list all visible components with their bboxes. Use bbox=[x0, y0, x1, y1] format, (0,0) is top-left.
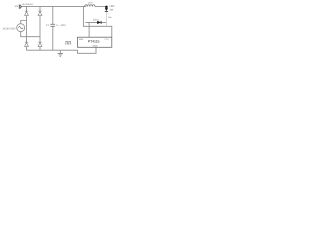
svg-text:85-265VAC: 85-265VAC bbox=[22, 3, 34, 6]
svg-text:GND: GND bbox=[93, 45, 98, 48]
diode D5 freewheel bbox=[97, 21, 101, 24]
svg-text:DIM: DIM bbox=[79, 38, 83, 41]
wire SW link bbox=[88, 22, 90, 37]
svg-text:SS14: SS14 bbox=[93, 19, 100, 22]
diode D2 (bridge top-right) bbox=[38, 7, 42, 16]
wire leg1 mid bbox=[26, 16, 28, 43]
svg-text:AC85-265V: AC85-265V bbox=[3, 28, 16, 31]
diode D3 (bridge bottom-left) bbox=[25, 42, 29, 50]
wire AC top to leg1 bbox=[21, 21, 27, 24]
svg-text:PT4115: PT4115 bbox=[88, 40, 99, 44]
svg-text:Vin: Vin bbox=[15, 5, 19, 8]
wire C1 branch lower bbox=[52, 26, 54, 50]
svg-text:CSN: CSN bbox=[104, 38, 109, 41]
wire LED cathode down bbox=[105, 12, 107, 26]
wire freewheel line bbox=[85, 21, 106, 23]
wire C1 branch upper bbox=[52, 7, 54, 25]
ground bbox=[58, 50, 63, 56]
wire top rail bbox=[22, 6, 86, 8]
svg-text:1mH: 1mH bbox=[88, 1, 93, 4]
LED LED1 bbox=[105, 7, 108, 11]
svg-text:400V: 400V bbox=[61, 24, 67, 27]
inductor L1 bbox=[85, 5, 107, 7]
wire AC bottom to leg2 bbox=[21, 32, 40, 37]
IC U1 PT4115 bbox=[78, 37, 112, 47]
node dot output bbox=[105, 6, 108, 9]
diode D1 (bridge top-left) bbox=[25, 7, 29, 16]
diode D4 (bridge bottom-right) bbox=[38, 42, 42, 50]
wire VIN drop bbox=[83, 7, 111, 38]
PWM waveform icon at DIM pin bbox=[65, 41, 71, 44]
connector J1 bbox=[19, 5, 22, 8]
AC source G1 bbox=[17, 24, 25, 32]
wire leg2 mid bbox=[39, 16, 41, 43]
wire bottom rail bbox=[27, 47, 97, 53]
capacitor C1 bbox=[50, 24, 55, 26]
